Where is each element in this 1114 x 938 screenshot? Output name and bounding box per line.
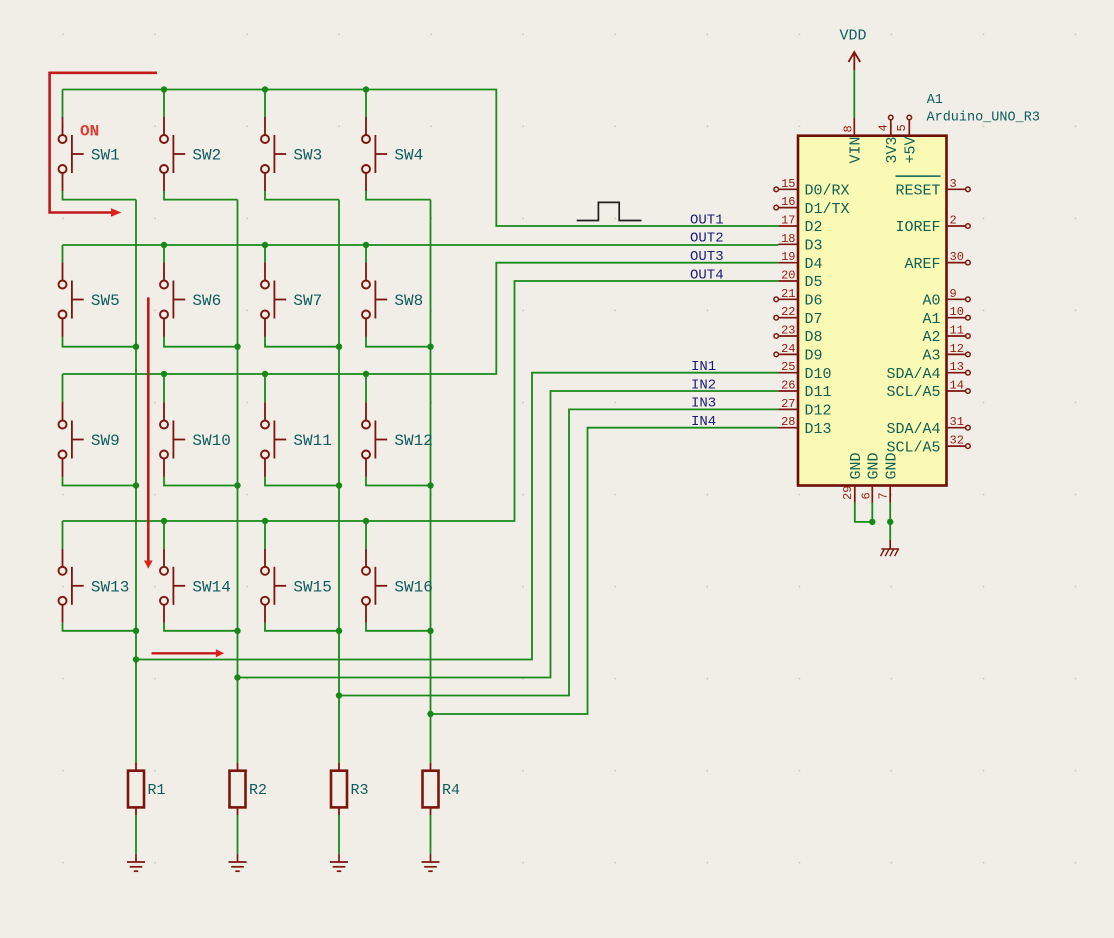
- switch SW10: [160, 403, 231, 477]
- switch SW5: [59, 263, 120, 337]
- svg-text:OUT1: OUT1: [690, 212, 724, 228]
- resistor R2: [230, 763, 268, 815]
- svg-text:26: 26: [781, 379, 795, 393]
- svg-text:SW4: SW4: [394, 147, 423, 165]
- wire column 2 net / net IN2: [238, 200, 779, 678]
- junction row2 bus at column 3: [262, 242, 268, 248]
- wire SW11 top pin to row3 bus: [264, 374, 266, 403]
- pin 11 A2: [922, 324, 970, 347]
- svg-text:VIN: VIN: [848, 136, 865, 163]
- pin 12 A3: [922, 342, 970, 365]
- svg-text:D6: D6: [805, 293, 823, 310]
- svg-text:8: 8: [842, 125, 856, 132]
- switch SW11: [261, 403, 332, 477]
- wire SW3 bottom pin to column 3: [265, 191, 339, 200]
- svg-text:D0/RX: D0/RX: [805, 183, 850, 200]
- switch SW13: [59, 549, 130, 623]
- wire SW16 bottom pin to column 4: [366, 623, 431, 631]
- pin 3 RESET: [895, 176, 970, 199]
- pin 10 A1: [922, 305, 970, 328]
- junction row3 bus at column 4: [363, 371, 369, 377]
- svg-text:R2: R2: [249, 782, 267, 799]
- svg-text:IOREF: IOREF: [895, 219, 940, 236]
- wire SW3 top pin to row1 bus: [264, 90, 266, 118]
- reference designator A1: [927, 93, 943, 108]
- wire SW13 bottom pin to column 1: [63, 623, 137, 631]
- junction GND at pin 6: [869, 519, 875, 525]
- svg-text:SW14: SW14: [192, 578, 230, 596]
- svg-text:3V3: 3V3: [884, 136, 901, 163]
- svg-text:D9: D9: [805, 348, 823, 365]
- svg-text:D7: D7: [805, 311, 823, 328]
- svg-text:SW7: SW7: [293, 292, 322, 310]
- wire SW9 top pin to row3 bus: [62, 374, 64, 403]
- wire SW10 top pin to row3 bus: [163, 374, 165, 403]
- junction GND at pin 7: [887, 519, 893, 525]
- pin 5 +5V: [895, 115, 920, 163]
- annotation ON text: [80, 123, 99, 141]
- svg-text:VDD: VDD: [839, 28, 866, 45]
- svg-text:D13: D13: [805, 421, 832, 438]
- wire GND pin 7 to ground: [889, 503, 891, 540]
- wire column 4 to resistor R4: [430, 714, 432, 763]
- switch SW4: [362, 117, 423, 191]
- net label OUT3: [690, 249, 724, 265]
- net label OUT2: [690, 231, 724, 247]
- svg-text:D10: D10: [805, 366, 832, 383]
- pin 24 D9: [774, 342, 823, 365]
- pin 29 GND: [841, 452, 865, 502]
- svg-text:Arduino_UNO_R3: Arduino_UNO_R3: [927, 111, 1040, 126]
- svg-text:ON: ON: [80, 123, 99, 141]
- svg-text:22: 22: [781, 305, 795, 319]
- annotation red scan path with arrow (left): [50, 73, 157, 217]
- resistor R1: [128, 763, 166, 815]
- svg-text:7: 7: [877, 492, 891, 499]
- wire row3 bus / net OUT3: [63, 263, 779, 374]
- resistor R4: [423, 763, 461, 815]
- svg-text:SDA/A4: SDA/A4: [886, 421, 940, 438]
- net label IN3: [691, 396, 716, 412]
- pulse waveform graphic: [577, 202, 642, 220]
- svg-text:SW8: SW8: [394, 292, 423, 310]
- wire SW11 bottom pin to column 3: [265, 477, 339, 486]
- svg-text:SCL/A5: SCL/A5: [886, 384, 940, 401]
- pin 4 3V3: [876, 115, 901, 163]
- junction row2 bus at column 4: [363, 242, 369, 248]
- annotation red down arrow (middle): [144, 297, 153, 568]
- IC A1 Arduino_UNO_R3 body: [798, 136, 947, 486]
- wire SW16 top pin to row4 bus: [365, 521, 367, 549]
- wire SW8 bottom pin to column 4: [366, 337, 431, 347]
- ground symbol GND1: [127, 854, 145, 871]
- svg-text:IN1: IN1: [691, 359, 716, 375]
- svg-text:31: 31: [950, 415, 964, 429]
- wire row4 bus / net OUT4: [63, 281, 779, 521]
- svg-text:3: 3: [950, 177, 957, 191]
- pin 13 SDA/A4: [886, 360, 970, 383]
- svg-text:A2: A2: [922, 329, 940, 346]
- svg-text:25: 25: [781, 360, 795, 374]
- value Arduino_UNO_R3: [927, 111, 1040, 126]
- power symbol VDD: [839, 28, 866, 71]
- svg-text:SW16: SW16: [394, 578, 432, 596]
- wire SW14 bottom pin to column 2: [164, 623, 238, 631]
- wire column 2 to resistor R2: [237, 678, 239, 764]
- junction column 1 at row3 step: [133, 482, 139, 488]
- switch SW14: [160, 549, 231, 623]
- svg-text:12: 12: [950, 342, 964, 356]
- wire SW5 bottom pin to column 1: [63, 337, 137, 347]
- wire R4 to ground: [430, 815, 432, 854]
- pin 22 D7: [774, 305, 823, 328]
- junction column 2 at row3 step: [234, 482, 240, 488]
- pin 21 D6: [774, 287, 823, 310]
- pin 19 D4: [778, 250, 822, 273]
- wire SW10 bottom pin to column 2: [164, 477, 238, 486]
- wire column 1 to resistor R1: [135, 660, 137, 764]
- pin 15 D0/RX: [774, 177, 850, 200]
- junction column 1 at IN1: [133, 656, 139, 662]
- svg-text:D5: D5: [805, 274, 823, 291]
- pin 8 VIN: [842, 117, 865, 163]
- wire SW13 top pin to row4 bus: [62, 521, 64, 549]
- svg-text:SW1: SW1: [91, 147, 120, 165]
- pin 27 D12: [778, 397, 831, 420]
- svg-text:21: 21: [781, 287, 795, 301]
- wire SW2 top pin to row1 bus: [163, 90, 165, 118]
- switch SW1: [59, 117, 120, 191]
- svg-text:23: 23: [781, 324, 795, 338]
- wire VDD to VIN pin 8: [853, 70, 855, 117]
- svg-text:A3: A3: [922, 348, 940, 365]
- resistor R3: [331, 763, 369, 815]
- wire R3 to ground: [338, 815, 340, 854]
- svg-text:GND: GND: [848, 452, 865, 479]
- pin 23 D8: [774, 324, 823, 347]
- ground symbol earth (Arduino): [881, 540, 900, 556]
- svg-text:+5V: +5V: [903, 136, 920, 163]
- wire SW2 bottom pin to column 2: [164, 191, 238, 200]
- junction row3 bus at column 3: [262, 371, 268, 377]
- svg-text:SW12: SW12: [394, 432, 432, 450]
- junction column 4 at row3 step: [427, 482, 433, 488]
- svg-text:D1/TX: D1/TX: [805, 201, 850, 218]
- switch SW16: [362, 549, 433, 623]
- svg-text:RESET: RESET: [895, 183, 940, 200]
- net label IN4: [691, 414, 716, 430]
- pin 18 D3: [778, 232, 822, 255]
- junction row4 bus at column 4: [363, 518, 369, 524]
- svg-text:SW6: SW6: [192, 292, 221, 310]
- svg-text:R3: R3: [351, 782, 369, 799]
- svg-text:R1: R1: [148, 782, 166, 799]
- svg-text:18: 18: [781, 232, 795, 246]
- wire SW12 bottom pin to column 4: [366, 477, 431, 486]
- svg-text:SW5: SW5: [91, 292, 120, 310]
- svg-text:15: 15: [781, 177, 795, 191]
- pin 30 AREF: [904, 250, 970, 273]
- junction column 4 at IN4: [427, 711, 433, 717]
- wire R2 to ground: [237, 815, 239, 854]
- pin 7 GND: [877, 452, 901, 502]
- svg-text:32: 32: [950, 434, 964, 448]
- svg-text:SW13: SW13: [91, 578, 129, 596]
- wire SW15 top pin to row4 bus: [264, 521, 266, 549]
- junction column 3 at IN3: [336, 692, 342, 698]
- junction row3 bus at column 2: [161, 371, 167, 377]
- wire SW6 top pin to row2 bus: [163, 245, 165, 263]
- svg-text:11: 11: [950, 324, 964, 338]
- annotation red right arrow (bottom): [152, 649, 225, 657]
- switch SW6: [160, 263, 221, 337]
- svg-text:9: 9: [950, 287, 957, 301]
- svg-text:D11: D11: [805, 384, 832, 401]
- wire column 3 net / net IN3: [339, 200, 778, 696]
- svg-text:30: 30: [950, 250, 964, 264]
- svg-text:19: 19: [781, 250, 795, 264]
- svg-text:13: 13: [950, 360, 964, 374]
- junction column 2 at IN2: [234, 674, 240, 680]
- pin 16 D1/TX: [774, 195, 850, 218]
- svg-text:OUT4: OUT4: [690, 267, 724, 283]
- wire SW4 bottom pin to column 4: [366, 191, 431, 200]
- wire SW4 top pin to row1 bus: [365, 90, 367, 118]
- svg-text:D8: D8: [805, 329, 823, 346]
- svg-text:4: 4: [876, 124, 890, 131]
- svg-text:OUT3: OUT3: [690, 249, 724, 265]
- pin 26 D11: [778, 379, 831, 402]
- svg-text:SW3: SW3: [293, 147, 322, 165]
- svg-text:2: 2: [950, 214, 957, 228]
- wire SW15 bottom pin to column 3: [265, 623, 339, 631]
- svg-text:24: 24: [781, 342, 795, 356]
- pin 17 D2: [778, 214, 822, 237]
- svg-text:20: 20: [781, 269, 795, 283]
- svg-text:D4: D4: [805, 256, 823, 273]
- pin 28 D13: [778, 415, 831, 438]
- svg-text:GND: GND: [884, 452, 901, 479]
- wire SW9 bottom pin to column 1: [63, 477, 137, 486]
- wire column 3 to resistor R3: [338, 696, 340, 764]
- wire R1 to ground: [135, 815, 137, 854]
- svg-text:SDA/A4: SDA/A4: [886, 366, 940, 383]
- net label IN2: [691, 377, 716, 393]
- junction row4 bus at column 3: [262, 518, 268, 524]
- svg-text:R4: R4: [442, 782, 460, 799]
- svg-text:IN2: IN2: [691, 377, 716, 393]
- wire row2 bus / net OUT2: [63, 244, 779, 246]
- pin 2 IOREF: [895, 214, 970, 237]
- wire SW7 bottom pin to column 3: [265, 337, 339, 347]
- junction column 2 at row2 step: [234, 344, 240, 350]
- svg-text:D12: D12: [805, 403, 832, 420]
- pin 32 SCL/A5: [886, 434, 970, 457]
- pin 31 SDA/A4: [886, 415, 970, 438]
- junction row2 bus at column 2: [161, 242, 167, 248]
- svg-text:17: 17: [781, 214, 795, 228]
- svg-text:16: 16: [781, 195, 795, 209]
- switch SW3: [261, 117, 322, 191]
- svg-text:A1: A1: [922, 311, 940, 328]
- wire row1 bus / net OUT1: [63, 90, 779, 227]
- junction column 1 at row2 step: [133, 344, 139, 350]
- junction row1 bus at column 2: [161, 86, 167, 92]
- wire SW1 bottom pin to column 1: [63, 191, 137, 200]
- svg-text:5: 5: [895, 124, 909, 131]
- pin 9 A0: [922, 287, 970, 310]
- svg-text:29: 29: [841, 486, 855, 500]
- svg-text:IN4: IN4: [691, 414, 716, 430]
- wire column 1 net / net IN1: [136, 200, 778, 660]
- switch SW12: [362, 403, 433, 477]
- junction column 3 at row3 step: [336, 482, 342, 488]
- wire SW5 top pin to row2 bus: [62, 245, 64, 263]
- junction column 4 at row4 step: [427, 628, 433, 634]
- svg-text:14: 14: [950, 379, 964, 393]
- wire SW7 top pin to row2 bus: [264, 245, 266, 263]
- svg-text:SW15: SW15: [293, 578, 331, 596]
- switch SW8: [362, 263, 423, 337]
- svg-text:GND: GND: [866, 452, 883, 479]
- net label OUT1: [690, 212, 724, 228]
- switch SW9: [59, 403, 120, 477]
- svg-text:IN3: IN3: [691, 396, 716, 412]
- ground symbol GND3: [330, 854, 348, 871]
- wire SW14 top pin to row4 bus: [163, 521, 165, 549]
- junction row4 bus at column 2: [161, 518, 167, 524]
- svg-text:27: 27: [781, 397, 795, 411]
- svg-text:A0: A0: [922, 293, 940, 310]
- switch SW7: [261, 263, 322, 337]
- wire GND pin 29 to junction: [855, 503, 873, 522]
- wire SW8 top pin to row2 bus: [365, 245, 367, 263]
- svg-text:D3: D3: [805, 238, 823, 255]
- switch SW15: [261, 549, 332, 623]
- junction column 2 at row4 step: [234, 628, 240, 634]
- svg-text:SW10: SW10: [192, 432, 230, 450]
- junction column 1 at row4 step: [133, 628, 139, 634]
- junction row1 bus at column 3: [262, 86, 268, 92]
- wire SW1 top pin to row1 bus: [62, 90, 64, 118]
- net label IN1: [691, 359, 716, 375]
- ground symbol GND2: [229, 854, 247, 871]
- pin 25 D10: [778, 360, 831, 383]
- pin 6 GND: [859, 452, 882, 502]
- svg-text:SW2: SW2: [192, 147, 221, 165]
- svg-text:SW11: SW11: [293, 432, 331, 450]
- wire SW12 top pin to row3 bus: [365, 374, 367, 403]
- ground symbol GND4: [422, 854, 440, 871]
- svg-text:D2: D2: [805, 219, 823, 236]
- pin 14 SCL/A5: [886, 379, 970, 402]
- svg-text:A1: A1: [927, 93, 943, 108]
- svg-text:OUT2: OUT2: [690, 231, 724, 247]
- wire GND pin 6 to junction: [871, 503, 873, 522]
- junction column 4 at row2 step: [427, 344, 433, 350]
- svg-text:SW9: SW9: [91, 432, 120, 450]
- svg-text:AREF: AREF: [904, 256, 940, 273]
- svg-text:6: 6: [859, 492, 873, 499]
- wire column 4 net / net IN4: [431, 200, 779, 714]
- svg-text:10: 10: [950, 305, 964, 319]
- wire SW6 bottom pin to column 2: [164, 337, 238, 347]
- svg-text:28: 28: [781, 415, 795, 429]
- net label OUT4: [690, 267, 724, 283]
- junction row1 bus at column 4: [363, 86, 369, 92]
- pin 20 D5: [778, 269, 822, 292]
- junction column 3 at row2 step: [336, 344, 342, 350]
- switch SW2: [160, 117, 221, 191]
- junction column 3 at row4 step: [336, 628, 342, 634]
